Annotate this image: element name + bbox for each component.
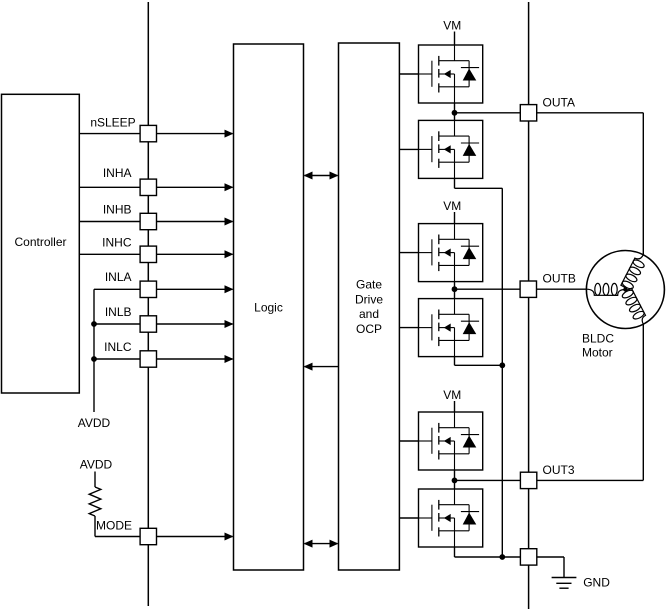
logic block bbox=[234, 44, 304, 570]
wire: Q5 source to Q6 drain (phase node OUT3) bbox=[454, 470, 456, 489]
node INLC pin bbox=[140, 351, 156, 367]
controller block bbox=[2, 94, 80, 393]
transistor Q1 (with body diode) bbox=[419, 45, 483, 103]
motor: BLDC motor body bbox=[586, 251, 664, 329]
wire: INLB from AVDD pull-up to pin bbox=[94, 323, 140, 325]
wire: AVDD tie line (vertical, joins INLA/INLB/INLC) bbox=[93, 289, 95, 412]
wire: INLC from AVDD pull-up to pin bbox=[94, 358, 140, 360]
svg-text:Motor: Motor bbox=[582, 345, 613, 359]
junction: rail joins Q6 source bbox=[499, 554, 505, 560]
wire: GND pin to ground bbox=[537, 556, 564, 558]
wire: INHB from controller to pin bbox=[79, 221, 140, 223]
ground bbox=[552, 578, 577, 589]
svg-text:INHB: INHB bbox=[103, 203, 132, 217]
svg-text:nSLEEP: nSLEEP bbox=[90, 116, 135, 130]
junction: phase B output tap bbox=[452, 286, 458, 292]
motor winding (phase B, left) bbox=[587, 289, 626, 295]
svg-text:INHC: INHC bbox=[102, 236, 132, 250]
transistor Q5 (with body diode) bbox=[419, 412, 483, 470]
transistor Q3 (with body diode) bbox=[419, 224, 483, 282]
transistor Q4 (with body diode) bbox=[419, 299, 483, 357]
wire: INLA pin to Logic (arrow) bbox=[157, 288, 233, 290]
wire: INHC from controller to pin bbox=[79, 253, 140, 255]
node INHB pin bbox=[140, 213, 156, 229]
wire: VM to Q3 drain bbox=[454, 212, 456, 224]
wire: phase tap to OUT3 pin bbox=[455, 479, 521, 481]
svg-text:OCP: OCP bbox=[356, 322, 382, 336]
svg-text:VM: VM bbox=[443, 388, 461, 402]
wire: gate drive to Q3 gate bbox=[399, 252, 418, 254]
wire: resistor to MODE pin bbox=[94, 516, 96, 537]
transistor Q2 (with body diode) bbox=[419, 120, 483, 178]
wire: Logic-GateDrive bus (bidirectional, top) bbox=[305, 175, 338, 177]
svg-text:INLA: INLA bbox=[105, 270, 132, 284]
wire: gate drive to Q4 gate bbox=[399, 327, 418, 329]
node nSLEEP pin bbox=[140, 125, 156, 141]
svg-text:INHA: INHA bbox=[103, 166, 132, 180]
svg-text:INLB: INLB bbox=[105, 305, 132, 319]
motor winding (phase A, top right) bbox=[621, 255, 643, 290]
label BLDC Motor bbox=[582, 332, 614, 360]
svg-text:Controller: Controller bbox=[14, 235, 66, 249]
wire: left input bus (vertical) bbox=[147, 2, 149, 606]
wire: Q2 source to GND rail bbox=[454, 178, 456, 188]
wire: GateDrive to Logic feedback (middle) bbox=[305, 366, 339, 368]
wire: Q3 source to Q4 drain (phase node OUTB) bbox=[454, 282, 456, 299]
svg-text:AVDD: AVDD bbox=[80, 458, 113, 472]
wire: Q6 source to GND pin bbox=[454, 547, 456, 557]
svg-text:GND: GND bbox=[583, 576, 610, 590]
wire: INLC pin to Logic (arrow) bbox=[157, 358, 233, 360]
svg-text:Drive: Drive bbox=[355, 292, 383, 306]
wire: OUTB to motor winding (left) bbox=[537, 288, 587, 290]
node OUTA pin bbox=[520, 105, 536, 121]
svg-text:OUT3: OUT3 bbox=[543, 463, 575, 477]
wire: INHB pin to Logic (arrow) bbox=[157, 221, 233, 223]
node INHA pin bbox=[140, 179, 156, 195]
junction: INLC tie bbox=[91, 356, 97, 362]
wire: INLB pin to Logic (arrow) bbox=[157, 323, 233, 325]
svg-text:OUTB: OUTB bbox=[543, 272, 576, 286]
wire: Q4 source to GND rail bbox=[454, 357, 456, 366]
wire: gate drive to Q5 gate bbox=[399, 440, 418, 442]
junction: INLB tie bbox=[91, 321, 97, 327]
junction: phase A output tap bbox=[452, 110, 458, 116]
svg-text:VM: VM bbox=[443, 199, 461, 213]
node INLB pin bbox=[140, 316, 156, 332]
svg-text:AVDD: AVDD bbox=[78, 416, 111, 430]
wire: phase tap to OUTB pin bbox=[455, 288, 521, 290]
node MODE pin bbox=[140, 528, 156, 544]
svg-text:and: and bbox=[359, 307, 379, 321]
wire: phase tap to OUTA pin bbox=[455, 112, 521, 114]
wire: nSLEEP from controller to pin bbox=[79, 133, 140, 135]
wire: VM to Q5 drain bbox=[454, 401, 456, 412]
wire: INHA from controller to pin bbox=[79, 186, 140, 188]
node OUT3 pin bbox=[520, 472, 536, 488]
resistor (MODE pull-up) bbox=[89, 487, 101, 516]
node OUTB pin bbox=[520, 281, 536, 297]
svg-text:INLC: INLC bbox=[104, 340, 132, 354]
junction: phase C output tap bbox=[452, 478, 458, 484]
junction: Q4 source joins rail bbox=[499, 362, 505, 368]
wire: AVDD to resistor bbox=[94, 472, 96, 488]
node: motor star point bbox=[623, 287, 627, 291]
svg-text:Gate: Gate bbox=[356, 278, 382, 292]
node INHC pin bbox=[140, 246, 156, 262]
wire: gate drive to Q2 gate bbox=[399, 148, 418, 150]
wire: INHC pin to Logic (arrow) bbox=[157, 253, 233, 255]
svg-text:MODE: MODE bbox=[96, 519, 132, 533]
wire: gate drive to Q6 gate bbox=[399, 517, 418, 519]
wire: nSLEEP pin to Logic (arrow) bbox=[157, 133, 233, 135]
node INLA pin bbox=[140, 281, 156, 297]
wire: Logic-GateDrive bus (bidirectional, bottom) bbox=[305, 543, 338, 545]
svg-text:BLDC: BLDC bbox=[582, 332, 614, 346]
svg-text:Logic: Logic bbox=[254, 301, 283, 315]
svg-text:VM: VM bbox=[443, 19, 461, 33]
svg-text:OUTA: OUTA bbox=[543, 95, 575, 109]
wire: OUTA to motor winding (top) bbox=[537, 112, 644, 114]
gate drive and OCP block bbox=[339, 43, 400, 570]
wire: MODE pin to Logic (arrow) bbox=[157, 536, 233, 538]
wire: INLA from AVDD pull-up to pin bbox=[94, 288, 140, 290]
node GND pin bbox=[520, 549, 536, 565]
motor winding (phase C, bottom right) bbox=[625, 288, 645, 324]
transistor Q6 (with body diode) bbox=[419, 489, 483, 547]
wire: right output bus (vertical) bbox=[528, 2, 530, 609]
wire: OUT3 to motor winding (bottom) bbox=[537, 479, 643, 481]
wire: VM to Q1 drain bbox=[454, 32, 456, 46]
wire: Q1 source to Q2 drain (phase node OUTA) bbox=[454, 103, 456, 120]
wire: INHA pin to Logic (arrow) bbox=[157, 186, 233, 188]
wire: GND rail (vertical) bbox=[501, 188, 503, 557]
wire: gate drive to Q1 gate bbox=[399, 73, 418, 75]
